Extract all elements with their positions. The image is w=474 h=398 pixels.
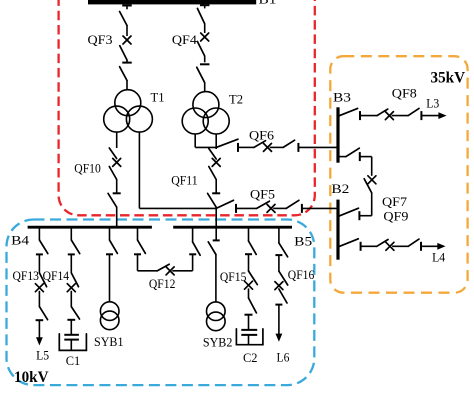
bus B2: [336, 200, 339, 260]
wire: [278, 288, 280, 290]
wire: [361, 245, 377, 247]
wire: [248, 254, 250, 271]
svg-text:QF16: QF16: [288, 267, 315, 282]
wire to SYB1: [109, 254, 111, 302]
disconnector blade (SYB1 isolator): [110, 240, 118, 253]
breaker QF10: [113, 158, 121, 166]
disconnector blade (QF15 mid): [249, 271, 258, 285]
wire: [215, 180, 217, 193]
svg-text:SYB1: SYB1: [94, 334, 124, 349]
contact tick: [359, 152, 361, 161]
wire T1 35kV winding down: [138, 132, 140, 208]
contact tick: [113, 192, 121, 194]
disconnector blade (QF14 lower): [71, 307, 79, 319]
contact tick: [134, 253, 141, 255]
breaker QF14: [67, 284, 75, 292]
svg-text:L5: L5: [36, 348, 49, 363]
wire T2 35kV winding down: [194, 134, 196, 147]
wire B3 stub: [338, 156, 346, 158]
wire to bus B3: [298, 146, 336, 148]
svg-text:QF11: QF11: [171, 173, 198, 188]
wire to bus B5: [215, 207, 217, 228]
disconnector blade (L4 bus-side): [340, 239, 359, 247]
breaker QF15: [245, 281, 253, 289]
svg-text:SYB2: SYB2: [203, 335, 233, 350]
contact tick: [275, 254, 282, 256]
disconnector blade (QF16 mid): [279, 271, 288, 285]
wire: [70, 254, 72, 273]
breaker QF6: [264, 143, 272, 151]
contact tick: [213, 239, 220, 241]
bus B1: [88, 0, 256, 4]
disconnector blade (QF6 breaker-side): [254, 141, 266, 148]
disconnector blade QF9 (B2-side): [340, 208, 359, 216]
wire B5 stub: [278, 228, 280, 243]
svg-text:L3: L3: [426, 95, 439, 110]
wire across to QF5 node: [139, 207, 216, 209]
wire: [38, 291, 40, 307]
svg-text:L6: L6: [277, 350, 290, 365]
contact tick: [237, 143, 239, 152]
wire: [360, 156, 372, 158]
wire: [137, 254, 139, 270]
35kV region dashed orange box: [330, 56, 467, 293]
wire QF12 run: [172, 270, 192, 272]
disconnector blade (QF5 breaker-side): [257, 201, 270, 208]
10kV region dashed blue box: [7, 220, 315, 386]
110kV region dashed red box: [59, 0, 315, 215]
wire QF12 run: [138, 270, 158, 272]
disconnector blade (B4 isolator): [108, 193, 117, 207]
svg-text:T2: T2: [229, 91, 243, 106]
contact tick: [106, 253, 113, 255]
disconnector blade (QF14 upper): [71, 240, 79, 254]
svg-text:T1: T1: [151, 89, 165, 104]
disconnector blade (QF14 mid): [71, 273, 78, 287]
disconnector blade (QF16 upper): [279, 243, 288, 257]
wire: [392, 115, 409, 117]
disconnector blade (QF4 feeder upper): [197, 8, 204, 23]
disconnector blade (QF6 left): [216, 139, 238, 147]
disconnector blade (L4 breaker-side): [377, 240, 388, 247]
svg-text:35kV: 35kV: [431, 69, 466, 86]
svg-text:QF5: QF5: [250, 186, 275, 201]
svg-text:QF4: QF4: [172, 32, 198, 47]
contact tick QS upper (QF3 feeder): [122, 5, 132, 7]
svg-text:QF7: QF7: [382, 194, 408, 209]
disconnector blade (QF7 lower): [364, 179, 372, 193]
contact tick: [245, 253, 252, 255]
bus B3: [336, 107, 339, 162]
svg-text:QF15: QF15: [220, 269, 247, 284]
outgoing line L5 arrow: [36, 320, 43, 345]
disconnector blade (QF12 B4-side): [138, 240, 146, 253]
wire B1 stub: [204, 5, 206, 8]
contact tick: [358, 211, 360, 220]
svg-text:QF14: QF14: [43, 268, 70, 283]
wire: [360, 215, 372, 217]
disconnector blade (QF5 right): [286, 200, 299, 208]
svg-text:L4: L4: [432, 249, 445, 264]
disconnector blade (QF13 lower): [39, 307, 47, 320]
svg-text:QF9: QF9: [383, 209, 408, 224]
wire B5 stub: [248, 228, 250, 241]
disconnector blade (QF6 right): [283, 140, 294, 147]
wire B4 stub: [70, 228, 72, 240]
breaker QF3: [123, 36, 131, 44]
svg-text:B2: B2: [331, 181, 349, 196]
wire down to QF7: [371, 157, 373, 176]
bus B5: [173, 226, 292, 229]
wire: [38, 254, 40, 273]
contact tick: [189, 253, 196, 255]
breaker (L4 feeder): [386, 242, 394, 250]
disconnector blade (QF8 breaker-side): [377, 109, 388, 116]
disconnector blade (QF7 B3-side): [346, 148, 359, 156]
wire B4 stub: [137, 228, 139, 240]
disconnector blade (QF8 line-side): [408, 108, 419, 115]
disconnector blade (QF13 upper): [39, 240, 47, 254]
wire to T1: [126, 81, 128, 91]
svg-text:C1: C1: [66, 353, 81, 368]
disconnector blade (T1 isolator): [120, 67, 127, 81]
svg-text:B3: B3: [333, 89, 351, 104]
disconnector blade (QF11 lower): [209, 167, 216, 180]
wire: [126, 60, 128, 62]
wire: [238, 146, 254, 148]
wire: [204, 24, 206, 33]
disconnector blade (QF12 B5-side): [193, 242, 201, 255]
wire to T2: [204, 83, 206, 92]
contact tick: [245, 314, 253, 316]
disconnector blade (QF13 mid): [39, 273, 46, 287]
svg-text:QF10: QF10: [74, 161, 101, 176]
wire to bus B4: [116, 207, 118, 228]
disconnector blade (QF15 lower): [249, 298, 257, 313]
contact tick: [297, 143, 299, 152]
station service transformer SYB1: [100, 302, 119, 330]
disconnector blade (QF12 switch): [157, 264, 169, 271]
svg-text:QF6: QF6: [249, 128, 275, 143]
disconnector blade (L4 line-side): [408, 239, 419, 246]
svg-text:QF12: QF12: [149, 276, 176, 291]
disconnector blade (QF11 upper): [209, 149, 216, 160]
svg-text:B1: B1: [259, 0, 277, 7]
bus B4: [28, 226, 152, 229]
breaker QF13: [35, 284, 43, 292]
contact tick: [36, 253, 43, 255]
breaker QF11: [212, 158, 220, 166]
breaker QF4: [201, 33, 209, 41]
contact tick: [122, 62, 132, 64]
wire: [236, 207, 257, 209]
wire: [116, 180, 118, 193]
wire: [371, 193, 373, 216]
contact tick: [200, 63, 210, 65]
svg-text:B5: B5: [294, 234, 312, 249]
contact tick: [67, 319, 75, 321]
outgoing line L6 arrow: [276, 305, 283, 342]
wire: [270, 146, 284, 148]
breaker QF8: [385, 112, 393, 120]
svg-text:QF8: QF8: [392, 85, 417, 100]
wire B4 stub: [109, 228, 111, 240]
outgoing line L3 arrow: [421, 112, 446, 119]
svg-text:B4: B4: [11, 232, 30, 247]
outgoing line L4 arrow: [421, 243, 446, 250]
wire across to QF6 node: [195, 146, 216, 148]
disconnector blade (QF5 left): [216, 200, 233, 208]
contact tick: [235, 204, 237, 213]
disconnector blade (T2 isolator): [197, 67, 205, 82]
svg-text:QF3: QF3: [88, 32, 113, 47]
wire B4 stub: [38, 228, 40, 240]
disconnector blade (node isolator): [208, 193, 217, 207]
transformer T2 (three-winding): [182, 92, 229, 134]
breaker QF16: [275, 282, 283, 290]
wire B5 stub: [192, 228, 194, 242]
svg-text:10kV: 10kV: [14, 369, 49, 386]
contact tick: [212, 192, 220, 194]
disconnector blade (QF3 feeder upper): [120, 12, 127, 26]
breaker QF12 (bus tie): [166, 267, 174, 275]
wire T1 to QF10: [116, 132, 118, 148]
contact tick: [275, 304, 282, 306]
breaker QF5: [267, 204, 275, 212]
breaker QF7: [368, 176, 376, 184]
contact tick QS upper (QF4 feeder): [200, 4, 210, 6]
wire B5 stub: [215, 228, 217, 240]
disconnector blade (SYB2 isolator): [208, 242, 216, 255]
contact tick: [36, 319, 44, 321]
svg-text:C2: C2: [243, 350, 258, 365]
wire: [392, 245, 408, 247]
disconnector blade (QF3 feeder lower): [120, 46, 127, 60]
wire B1 stub: [126, 6, 128, 10]
transformer T1 (three-winding): [104, 90, 153, 132]
station service transformer SYB2: [207, 302, 226, 331]
wire T2 to QF11 (crosses QF6 tap): [215, 134, 217, 149]
capacitor C1: [59, 320, 86, 351]
disconnector blade (QF4 feeder lower): [197, 42, 204, 57]
disconnector blade (QF15 upper): [249, 241, 257, 254]
capacitor C2: [236, 315, 263, 345]
wire to bus B2: [302, 207, 337, 209]
wire: [204, 56, 206, 62]
wire: [248, 288, 250, 298]
disconnector blade (QF16 lower): [279, 289, 287, 303]
contact tick: [360, 242, 362, 251]
wire up to B5 side: [192, 255, 194, 271]
wire to SYB2: [215, 255, 217, 303]
wire: [278, 255, 280, 271]
contact tick: [68, 253, 75, 255]
contact tick: [420, 242, 422, 251]
contact tick: [301, 204, 303, 213]
wire: [273, 207, 286, 209]
disconnector blade (QF8 bus-side): [340, 108, 358, 115]
disconnector blade (QF10 upper): [109, 148, 116, 159]
wire: [70, 291, 72, 307]
contact tick: [420, 111, 422, 120]
wire: [126, 26, 128, 37]
contact tick: [359, 111, 361, 120]
svg-text:QF13: QF13: [13, 268, 40, 283]
wire: [360, 115, 377, 117]
disconnector blade (QF10 lower): [109, 167, 116, 180]
